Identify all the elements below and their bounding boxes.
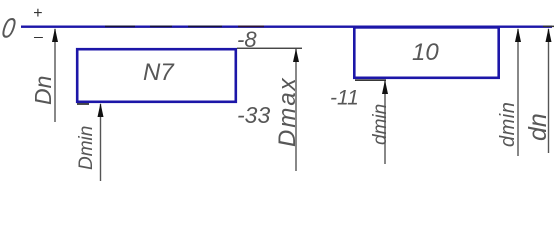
svg-text:Dmax: Dmax [274, 76, 301, 147]
svg-text:Dmin: Dmin [76, 126, 97, 170]
svg-text:10: 10 [412, 39, 439, 66]
svg-text:-8: -8 [237, 27, 257, 52]
svg-text:dmin: dmin [370, 104, 391, 145]
svg-text:Dn: Dn [30, 76, 56, 105]
svg-text:+: + [33, 5, 42, 22]
svg-text:-11: -11 [330, 87, 359, 110]
svg-text:0: 0 [0, 14, 18, 44]
svg-text:dmin: dmin [497, 102, 519, 147]
svg-text:–: – [33, 29, 43, 46]
svg-text:dn: dn [524, 113, 552, 141]
svg-text:N7: N7 [143, 59, 175, 86]
svg-text:-33: -33 [237, 102, 270, 128]
